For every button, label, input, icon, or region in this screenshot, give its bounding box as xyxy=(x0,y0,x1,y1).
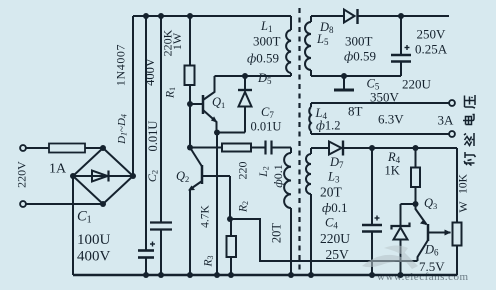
char 压 xyxy=(465,95,476,108)
capacitor C1 xyxy=(138,13,155,278)
svg-text:20T: 20T xyxy=(270,223,284,244)
labels 400V C2 0.01U column xyxy=(143,58,160,182)
wire Q2 base corner down xyxy=(229,176,231,219)
svg-text:D5: D5 xyxy=(257,71,272,86)
ground xyxy=(334,73,354,90)
diode D5 xyxy=(238,73,252,133)
svg-text:C2: C2 xyxy=(145,170,160,182)
feedback branch: wire xyxy=(190,147,222,149)
svg-text:ф1.2: ф1.2 xyxy=(316,119,341,133)
svg-text:L2: L2 xyxy=(258,166,271,177)
char 丝 xyxy=(464,133,474,146)
resistor R4 xyxy=(411,145,420,207)
svg-text:L3: L3 xyxy=(327,170,340,185)
wire bridge positive riser xyxy=(132,16,134,176)
svg-text:6.3V: 6.3V xyxy=(378,112,404,127)
svg-text:220V: 220V xyxy=(15,161,29,188)
svg-text:ф0.1: ф0.1 xyxy=(322,200,347,215)
svg-text:Q2: Q2 xyxy=(176,169,189,184)
svg-text:220U: 220U xyxy=(402,77,432,92)
capacitor C4 xyxy=(362,145,382,278)
labels L4 8T 1.2 6.3V 3A xyxy=(315,104,455,133)
diode D8 xyxy=(311,9,449,24)
svg-text:ф0.1: ф0.1 xyxy=(271,164,285,188)
svg-text:ф0.59: ф0.59 xyxy=(247,51,279,66)
svg-text:R2: R2 xyxy=(238,201,251,213)
svg-text:ф0.59: ф0.59 xyxy=(344,49,376,64)
wire top rail xyxy=(133,15,291,17)
labels R4 1K xyxy=(385,150,401,178)
labels 220K 1W R1 xyxy=(161,29,185,99)
resistor R2 xyxy=(227,219,237,278)
watermark xyxy=(362,246,469,284)
label 1A xyxy=(49,162,67,177)
label Q3 xyxy=(424,196,437,211)
svg-text:W: W xyxy=(456,201,470,213)
capacitor C5 xyxy=(391,16,411,76)
bottom rail xyxy=(73,274,457,276)
wire base junction to right xyxy=(230,219,418,261)
labels C5 350V 220U 250V 0.25A xyxy=(367,27,448,105)
svg-text:L1: L1 xyxy=(260,19,272,34)
labels D8 L5 300T 0.59 xyxy=(316,20,376,64)
label D1~D4 xyxy=(116,114,129,145)
wire from bottom terminal to bridge xyxy=(26,203,103,205)
svg-text:www.elecfans.com: www.elecfans.com xyxy=(377,271,469,283)
svg-text:4.7K: 4.7K xyxy=(200,204,212,227)
svg-text:3A: 3A xyxy=(438,113,455,128)
transformer core xyxy=(298,8,300,270)
svg-text:L5: L5 xyxy=(316,32,329,47)
zener diode D6 xyxy=(392,204,416,278)
svg-text:D1~D4: D1~D4 xyxy=(116,114,129,145)
inductor L5 secondary 250V xyxy=(305,16,311,76)
labels D7 L3 20T 0.1 C4 220U 25V xyxy=(320,155,350,262)
svg-text:250V: 250V xyxy=(417,27,447,42)
svg-text:R3: R3 xyxy=(203,255,216,267)
label filament voltage (hand-drawn CJK) xyxy=(463,95,476,166)
labels C7 0.01U xyxy=(251,105,282,134)
label R2 xyxy=(238,201,251,213)
labels 4.7K R3 xyxy=(200,204,216,267)
svg-text:1K: 1K xyxy=(385,164,400,178)
wire collector to primary xyxy=(215,75,292,77)
terminal 6.3V top xyxy=(449,100,455,106)
inductor L4 6.3V xyxy=(309,103,449,134)
labels L2 0.1 20T xyxy=(258,164,285,243)
capacitor C1 labels xyxy=(77,209,111,265)
svg-text:Q1: Q1 xyxy=(212,95,225,110)
label Q1 xyxy=(212,95,225,110)
svg-text:100U: 100U xyxy=(77,232,111,248)
terminal 220V bottom xyxy=(20,201,26,207)
label D5 xyxy=(257,71,272,86)
svg-text:D6: D6 xyxy=(424,243,439,258)
svg-text:400V: 400V xyxy=(143,58,157,86)
svg-text:300T: 300T xyxy=(345,34,373,49)
wire Q1 emitter line down to rail xyxy=(216,133,218,276)
svg-text:D7: D7 xyxy=(329,155,344,170)
wire from top terminal to fuse xyxy=(26,147,49,149)
transistor Q3 xyxy=(416,204,452,261)
svg-text:220: 220 xyxy=(236,162,250,180)
svg-text:Q3: Q3 xyxy=(424,196,437,211)
labels D6 7.5V xyxy=(419,243,445,275)
labels L1 300T 0.59 xyxy=(247,19,281,66)
inductor L3 xyxy=(306,148,314,278)
svg-text:1A: 1A xyxy=(49,162,67,177)
svg-text:1W: 1W xyxy=(170,32,184,50)
capacitor C2 xyxy=(150,13,172,278)
char 灯 xyxy=(464,152,476,166)
inductor L2 feedback xyxy=(284,148,294,279)
svg-text:400V: 400V xyxy=(77,249,111,265)
svg-text:C7: C7 xyxy=(261,105,274,120)
bridge rectifier D1~D4 xyxy=(70,145,136,207)
svg-text:10K: 10K xyxy=(458,173,470,194)
potentiometer W xyxy=(453,148,462,275)
svg-text:0.01U: 0.01U xyxy=(251,120,282,134)
svg-text:1N4007: 1N4007 xyxy=(114,44,128,86)
transistor Q2 xyxy=(188,148,230,276)
svg-text:0.01U: 0.01U xyxy=(146,121,160,152)
diode D7 xyxy=(311,141,457,156)
svg-text:25V: 25V xyxy=(326,247,350,262)
resistor R1 xyxy=(185,13,195,151)
terminal 220V top xyxy=(20,145,26,151)
svg-text:C4: C4 xyxy=(325,216,338,231)
wire secondary bottom xyxy=(311,75,401,77)
labels W 10K xyxy=(456,173,470,212)
svg-text:300T: 300T xyxy=(253,34,281,49)
label Q2 xyxy=(176,169,189,184)
svg-text:20T: 20T xyxy=(320,185,343,200)
svg-text:0.25A: 0.25A xyxy=(415,42,448,57)
svg-text:220U: 220U xyxy=(320,231,350,246)
capacitor C7 0.01U xyxy=(266,141,292,155)
svg-text:8T: 8T xyxy=(348,104,363,119)
wire emitter junction to D5 xyxy=(217,132,245,134)
label 1N4007 xyxy=(114,44,128,86)
wire ground riser from bridge left vertex xyxy=(72,176,74,275)
label 220 rotated xyxy=(236,162,250,180)
svg-text:R1: R1 xyxy=(165,87,178,99)
node 220V label xyxy=(15,161,29,188)
resistor 220 xyxy=(222,144,251,152)
terminal 6.3V bottom xyxy=(449,131,455,137)
transistor Q1 xyxy=(190,76,218,133)
svg-text:C1: C1 xyxy=(77,209,92,226)
fuse 1A xyxy=(49,144,85,153)
char 电 xyxy=(463,115,474,125)
inductor L1 primary xyxy=(286,16,291,76)
